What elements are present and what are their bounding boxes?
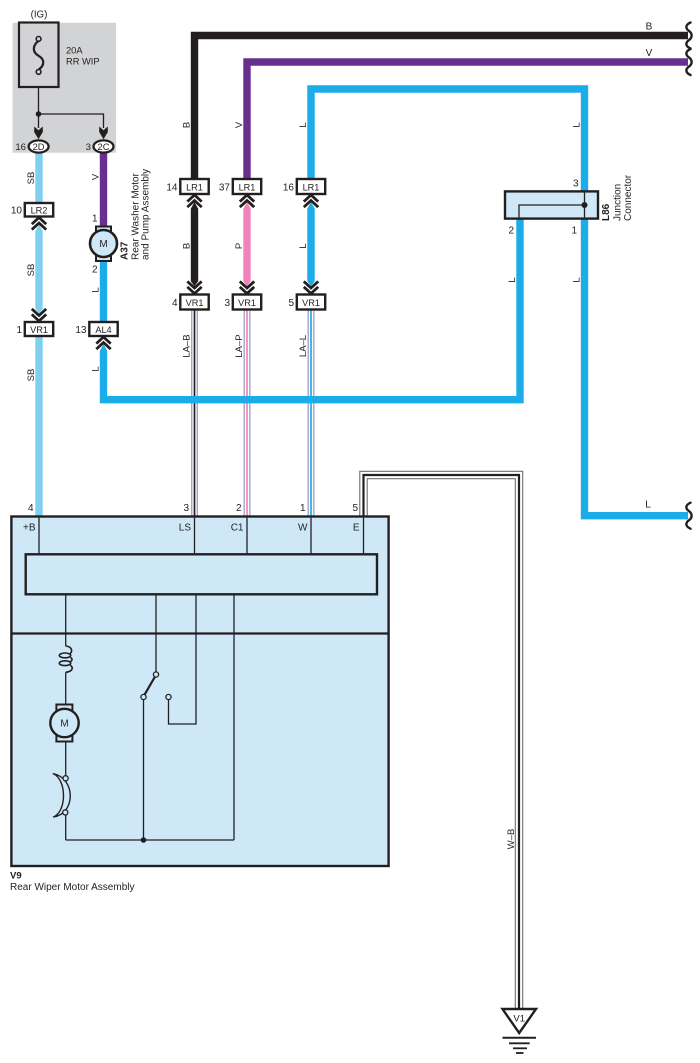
- wire L motor pin2 to AL4: [100, 261, 107, 322]
- svg-text:2: 2: [92, 265, 98, 276]
- chevrons below LR1 pin37: [240, 195, 254, 207]
- wire B top run (corner to right edge break): [195, 36, 689, 180]
- coil winding: [59, 646, 72, 672]
- V9 rear wiper motor assembly box: [11, 517, 388, 867]
- cam contact lower: [63, 810, 68, 815]
- svg-text:1: 1: [16, 325, 22, 336]
- svg-text:C1: C1: [231, 523, 244, 534]
- arrow into 2C: [99, 127, 108, 140]
- svg-text:3: 3: [224, 298, 230, 309]
- wire split horizontal: [39, 114, 104, 128]
- svg-text:37: 37: [219, 183, 231, 194]
- svg-text:LR1: LR1: [186, 183, 203, 193]
- switch fixed contact right: [166, 694, 171, 699]
- svg-text:16: 16: [283, 183, 295, 194]
- switch fixed contact top: [153, 672, 158, 677]
- svg-text:AL4: AL4: [95, 325, 111, 335]
- ground V1 triangle: [503, 1009, 537, 1033]
- chevrons below LR1 pin14: [187, 195, 201, 207]
- chevrons above VR1 pin5: [304, 281, 318, 293]
- svg-text:LR2: LR2: [31, 206, 48, 216]
- washer motor A37 circle: [90, 230, 117, 257]
- svg-text:VR1: VR1: [30, 325, 48, 335]
- svg-text:LA–B: LA–B: [181, 334, 192, 357]
- svg-text:(IG): (IG): [31, 10, 48, 21]
- break symbol wire B: [686, 23, 691, 49]
- connector LR1 pin 16: [283, 179, 325, 194]
- svg-text:V9: V9: [10, 871, 22, 882]
- chevrons below AL4: [96, 337, 110, 349]
- connector LR1 pin 37: [219, 179, 261, 194]
- svg-text:LR1: LR1: [303, 183, 320, 193]
- svg-text:4: 4: [28, 503, 34, 514]
- connector AL4: [75, 322, 117, 336]
- svg-text:M: M: [99, 239, 107, 250]
- svg-text:B: B: [646, 22, 653, 33]
- svg-text:B: B: [181, 122, 192, 128]
- wire LA-L thin (VR1 pin5 to V9 pin1): [308, 310, 314, 517]
- motor M circle (V9): [50, 709, 78, 737]
- wire SB VR1 to V9 pin4: [35, 336, 42, 517]
- lead contact right to C1 branch: [169, 594, 197, 724]
- fuse output wire: [38, 87, 40, 114]
- chevrons above VR1 pin3: [240, 281, 254, 293]
- svg-text:L: L: [298, 122, 309, 127]
- lead coil to motor: [65, 672, 67, 704]
- connector VR1 pin 4: [172, 295, 209, 310]
- svg-text:3: 3: [573, 179, 579, 190]
- V9 pin 2 stub: [246, 518, 248, 555]
- svg-text:13: 13: [75, 325, 87, 336]
- wire L junction pin 2 down, across to motor branch: [104, 218, 521, 400]
- svg-text:Connector: Connector: [623, 174, 634, 221]
- svg-text:P: P: [234, 243, 245, 249]
- stem to 2D: [38, 114, 40, 128]
- svg-text:L: L: [645, 500, 651, 511]
- svg-text:L86: L86: [601, 203, 612, 221]
- V9 pin 3 stub: [194, 518, 196, 555]
- fuse element: [34, 41, 43, 70]
- wire L LR1 to VR1: [307, 202, 314, 286]
- svg-text:5: 5: [352, 503, 358, 514]
- svg-text:L: L: [90, 366, 101, 371]
- svg-text:M: M: [60, 719, 68, 730]
- switch pivot contact: [141, 694, 146, 699]
- svg-text:L: L: [507, 277, 518, 282]
- svg-text:L: L: [571, 122, 582, 127]
- svg-text:and Pump Assembly: and Pump Assembly: [140, 169, 151, 260]
- svg-text:V: V: [234, 121, 245, 128]
- connector VR1 pin 3: [224, 295, 261, 310]
- V9 pin 4 stub: [38, 518, 40, 555]
- svg-text:SB: SB: [26, 172, 37, 185]
- break symbol wire L: [686, 503, 691, 529]
- junction dot bottom wire: [141, 837, 147, 843]
- chevrons above VR1 pin1: [32, 309, 46, 321]
- wire L junction pin 1 down and right to edge break: [585, 218, 689, 516]
- svg-text:3: 3: [86, 142, 91, 153]
- wire V 2C to washer motor pin1: [100, 150, 107, 227]
- svg-text:10: 10: [11, 206, 23, 217]
- svg-text:1: 1: [300, 503, 306, 514]
- chevrons above VR1 pin4: [187, 281, 201, 293]
- svg-text:2: 2: [508, 226, 514, 237]
- wire SB LR2 to VR1: [35, 225, 42, 314]
- wire W-B from E to ground (outer line): [360, 471, 523, 1009]
- svg-text:W–B: W–B: [506, 829, 517, 850]
- lead motor to cam: [65, 742, 67, 777]
- svg-text:VR1: VR1: [238, 298, 256, 308]
- V9 internal branch 1 lead: [65, 594, 67, 646]
- svg-text:VR1: VR1: [186, 298, 204, 308]
- svg-text:B: B: [181, 243, 192, 249]
- arrow into 2D: [34, 127, 43, 140]
- wire SB 2D to LR2: [35, 150, 42, 203]
- svg-text:SB: SB: [26, 369, 37, 382]
- svg-text:LA–P: LA–P: [234, 334, 245, 357]
- svg-text:L: L: [90, 287, 101, 292]
- cam crescent: [53, 774, 70, 818]
- svg-text:+B: +B: [23, 523, 36, 534]
- svg-text:Junction: Junction: [613, 184, 624, 221]
- wire B LR1 to VR1: [191, 202, 198, 286]
- connector oval 2D: [29, 140, 49, 152]
- chevrons below LR1 pin16: [304, 195, 318, 207]
- svg-text:V: V: [646, 48, 653, 59]
- motor M brushes (V9): [56, 705, 72, 712]
- V9 internal branch 2 lead: [155, 594, 157, 672]
- svg-text:14: 14: [166, 183, 178, 194]
- svg-text:E: E: [353, 523, 360, 534]
- ground bars: [503, 1037, 537, 1039]
- svg-text:1: 1: [571, 226, 577, 237]
- svg-text:20A: 20A: [66, 46, 83, 56]
- break symbol wire V: [686, 49, 691, 75]
- wire W-B centre black stripe: [364, 475, 520, 1009]
- wire L top run to junction connector pin 3: [311, 89, 585, 192]
- svg-text:3: 3: [183, 503, 189, 514]
- chevrons below LR2: [32, 218, 46, 230]
- connector VR1 pin 5: [288, 295, 325, 310]
- wire LA-P thin (VR1 pin3 to V9 pin2): [244, 310, 250, 517]
- junction connector internal lines: [584, 193, 586, 218]
- svg-text:SB: SB: [26, 264, 37, 277]
- svg-text:W: W: [298, 523, 308, 534]
- cam contact upper: [63, 776, 68, 781]
- junction connector L86 box: [505, 191, 598, 218]
- washer motor A37 brushes: [96, 227, 111, 234]
- svg-text:A37: A37: [119, 241, 130, 260]
- connector VR1 pin 1: [16, 322, 53, 336]
- V9 pin 5 stub: [363, 518, 365, 555]
- wire W-B inner line: [367, 479, 515, 1009]
- wire L pointed tip below AL4 chevrons: [100, 344, 107, 351]
- svg-text:VR1: VR1: [302, 298, 320, 308]
- svg-text:RR WIP: RR WIP: [66, 57, 100, 67]
- V9 inner connector rectangle: [26, 554, 377, 594]
- junction connector dot: [582, 202, 588, 208]
- connector oval 2C: [94, 140, 114, 152]
- fuse box: [19, 23, 59, 88]
- svg-text:Rear Wiper Motor Assembly: Rear Wiper Motor Assembly: [10, 882, 134, 893]
- svg-text:5: 5: [288, 298, 294, 309]
- svg-text:4: 4: [172, 298, 178, 309]
- svg-text:2C: 2C: [98, 142, 110, 152]
- wire V top run: [247, 62, 688, 179]
- svg-text:LR1: LR1: [239, 183, 256, 193]
- wire P LR1 to VR1: [243, 202, 250, 286]
- wire LA-B thin (VR1 pin4 to V9 pin3): [192, 310, 198, 517]
- svg-text:LS: LS: [179, 523, 192, 534]
- V9 bottom internal wire: [66, 839, 234, 841]
- fuse block shaded area: [13, 23, 117, 153]
- svg-text:L: L: [298, 243, 309, 248]
- V9 pin 1 stub: [310, 518, 312, 555]
- lead cam to bottom wire: [65, 815, 67, 840]
- connector LR2: [11, 203, 53, 217]
- node split dot: [36, 111, 42, 117]
- svg-text:2D: 2D: [33, 142, 45, 152]
- V9 internal branch W lead: [233, 594, 235, 840]
- svg-text:V: V: [90, 173, 101, 180]
- svg-text:2: 2: [236, 503, 242, 514]
- lead pivot to bottom wire: [143, 700, 145, 840]
- svg-text:V1: V1: [513, 1014, 525, 1025]
- svg-text:LA–L: LA–L: [298, 335, 309, 357]
- V9 internal divider: [11, 632, 388, 634]
- connector LR1 pin 14: [166, 179, 208, 194]
- switch lever: [145, 677, 155, 695]
- svg-text:L: L: [571, 277, 582, 282]
- svg-text:1: 1: [92, 214, 98, 225]
- svg-text:16: 16: [15, 142, 26, 153]
